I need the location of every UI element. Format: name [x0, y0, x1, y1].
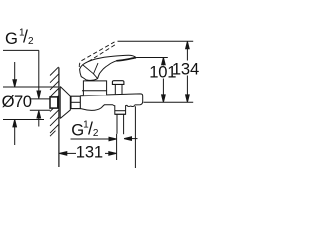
extension line hose left / 131 right [116, 134, 118, 160]
right dimensions: ext lines [118, 40, 194, 42]
svg-text:G: G [5, 29, 17, 48]
dim G1/2 bottom: underline + arrow [71, 138, 111, 140]
extension line below spout [134, 106, 136, 168]
svg-text:G: G [71, 121, 83, 140]
lever handle solid [80, 55, 136, 80]
wall nipple square [50, 97, 58, 108]
escutcheon cone [60, 87, 70, 119]
faucet body [80, 94, 142, 105]
shower hose [116, 114, 118, 134]
aerator bumps [127, 105, 134, 107]
extension lines escutcheon [3, 86, 58, 88]
dim 134 [186, 42, 190, 49]
wall hatching [50, 67, 59, 136]
dim G1/2 top: underline + pointer [3, 49, 39, 51]
svg-text:Ø70: Ø70 [2, 92, 32, 111]
wall line [58, 68, 60, 168]
dim 131 [59, 152, 66, 156]
dim Ø70 arrows [14, 62, 16, 80]
diverter knob [112, 81, 124, 85]
union nut [71, 96, 80, 108]
svg-text:134: 134 [172, 59, 199, 78]
dim 101 [162, 58, 166, 65]
supply pipe [30, 98, 50, 100]
shower outlet [115, 105, 126, 114]
svg-text:131: 131 [76, 143, 103, 162]
lever dashed raised position [79, 42, 116, 67]
cartridge box [83, 81, 106, 96]
